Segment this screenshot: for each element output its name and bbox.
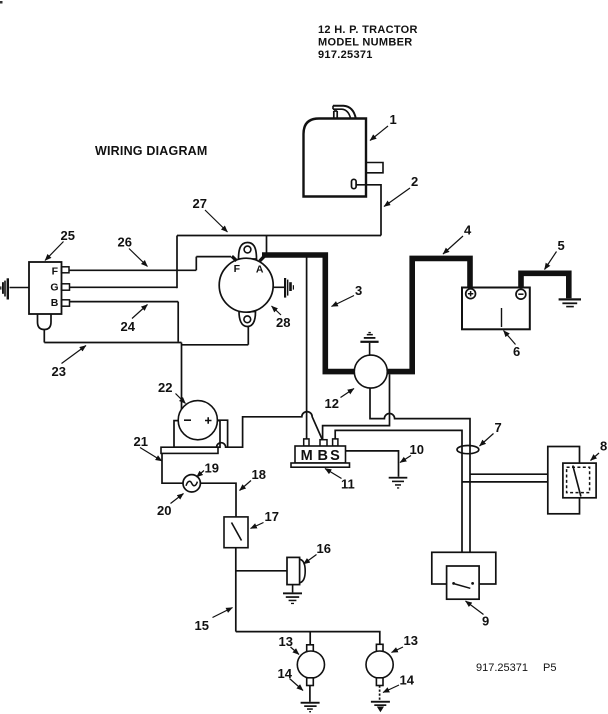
svg-text:26: 26 xyxy=(118,235,132,250)
svg-text:15: 15 xyxy=(195,618,209,633)
svg-text:917.25371: 917.25371 xyxy=(318,49,373,61)
svg-text:14: 14 xyxy=(400,673,415,688)
svg-text:G: G xyxy=(50,281,58,293)
svg-text:1: 1 xyxy=(390,112,397,127)
svg-text:F: F xyxy=(234,263,241,275)
svg-text:10: 10 xyxy=(410,442,424,457)
svg-text:7: 7 xyxy=(495,420,502,435)
svg-text:19: 19 xyxy=(205,461,219,476)
svg-text:22: 22 xyxy=(158,380,172,395)
svg-text:13: 13 xyxy=(279,634,293,649)
svg-text:S: S xyxy=(330,448,340,464)
svg-text:23: 23 xyxy=(52,364,66,379)
svg-text:B: B xyxy=(51,297,59,309)
svg-text:16: 16 xyxy=(317,541,331,556)
svg-text:P5: P5 xyxy=(543,662,556,674)
svg-text:12: 12 xyxy=(325,396,339,411)
svg-text:8: 8 xyxy=(600,439,607,454)
svg-text:MODEL NUMBER: MODEL NUMBER xyxy=(318,37,412,49)
svg-text:21: 21 xyxy=(134,434,148,449)
svg-text:917.25371: 917.25371 xyxy=(476,662,528,674)
svg-text:13: 13 xyxy=(404,633,418,648)
svg-text:28: 28 xyxy=(276,315,290,330)
svg-text:14: 14 xyxy=(278,666,293,681)
svg-text:B: B xyxy=(317,448,327,464)
svg-text:25: 25 xyxy=(61,228,75,243)
svg-text:17: 17 xyxy=(265,509,279,524)
svg-text:18: 18 xyxy=(252,467,266,482)
svg-text:27: 27 xyxy=(193,196,207,211)
svg-text:20: 20 xyxy=(157,503,171,518)
svg-text:2: 2 xyxy=(411,174,418,189)
svg-text:M: M xyxy=(301,448,313,464)
svg-text:12 H. P. TRACTOR: 12 H. P. TRACTOR xyxy=(318,24,418,36)
svg-text:F: F xyxy=(52,265,59,277)
svg-text:24: 24 xyxy=(121,319,136,334)
svg-text:11: 11 xyxy=(341,477,355,492)
svg-text:A: A xyxy=(256,263,264,275)
svg-text:6: 6 xyxy=(513,344,520,359)
svg-text:3: 3 xyxy=(355,283,362,298)
svg-text:5: 5 xyxy=(558,238,565,253)
svg-text:9: 9 xyxy=(482,614,489,629)
svg-text:4: 4 xyxy=(464,223,472,238)
svg-text:WIRING DIAGRAM: WIRING DIAGRAM xyxy=(95,144,208,158)
